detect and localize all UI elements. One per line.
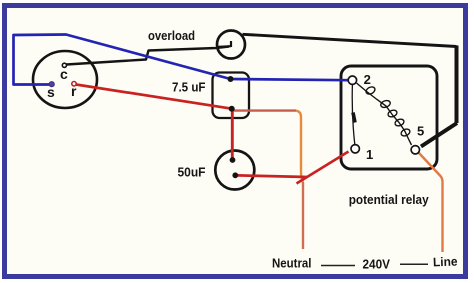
svg-text:overload: overload — [148, 28, 195, 43]
relay terminal 5 — [411, 146, 419, 154]
relay terminal 2 — [348, 76, 356, 84]
potential relay box — [341, 66, 437, 169]
svg-text:7.5 uF: 7.5 uF — [172, 80, 206, 95]
terminal S — [49, 82, 54, 87]
relay terminal 1 — [351, 145, 359, 153]
svg-text:50uF: 50uF — [178, 165, 206, 180]
wire: black drop to relay terminal 5 — [421, 123, 457, 147]
svg-text:s: s — [47, 84, 55, 100]
wire: blue start winding from terminal S over to run capacitor and relay terminal 2 — [14, 35, 349, 85]
compressor motor — [33, 51, 97, 108]
run capacitor top terminal — [228, 76, 234, 82]
svg-text:1: 1 — [366, 147, 373, 162]
start capacitor top terminal — [230, 157, 236, 163]
wire: orange drop to junction — [296, 111, 303, 182]
wire: black overload to line side (top run) — [243, 34, 457, 46]
svg-text:Line: Line — [433, 255, 458, 270]
svg-text:240V: 240V — [363, 257, 391, 272]
wire: red junction to relay terminal 1 — [297, 152, 349, 184]
run capacitor 7.5uF — [213, 73, 250, 119]
start capacitor 50uF — [215, 151, 254, 190]
relay coil 2-5 — [357, 83, 412, 145]
terminal C — [62, 63, 66, 67]
relay contact 2-1 — [352, 85, 355, 145]
wire: salmon run capacitor to neutral corner — [233, 109, 296, 111]
svg-text:5: 5 — [417, 124, 424, 139]
wire: red run winding to run capacitor — [76, 85, 232, 109]
terminal R — [72, 82, 76, 86]
wire: black right side drop — [455, 46, 459, 124]
wire: salmon junction down to neutral — [302, 182, 304, 249]
start capacitor right terminal — [232, 172, 238, 178]
relay contact blade — [353, 113, 355, 123]
svg-text:Neutral: Neutral — [272, 256, 312, 271]
dash between Neutral and 240V — [321, 265, 355, 267]
overload protector — [217, 31, 245, 59]
wire: red run capacitor to start capacitor — [231, 109, 234, 160]
wire: orange relay terminal 5 to line — [419, 153, 443, 253]
svg-text:c: c — [60, 66, 68, 82]
wire: black common terminal to overload — [67, 47, 230, 65]
svg-text:2: 2 — [364, 72, 371, 87]
wire: red start capacitor to junction — [238, 175, 307, 177]
dash between 240V and Line — [400, 263, 428, 265]
svg-text:potential relay: potential relay — [349, 192, 430, 207]
svg-text:r: r — [71, 83, 77, 99]
run capacitor bottom terminal — [229, 106, 235, 112]
